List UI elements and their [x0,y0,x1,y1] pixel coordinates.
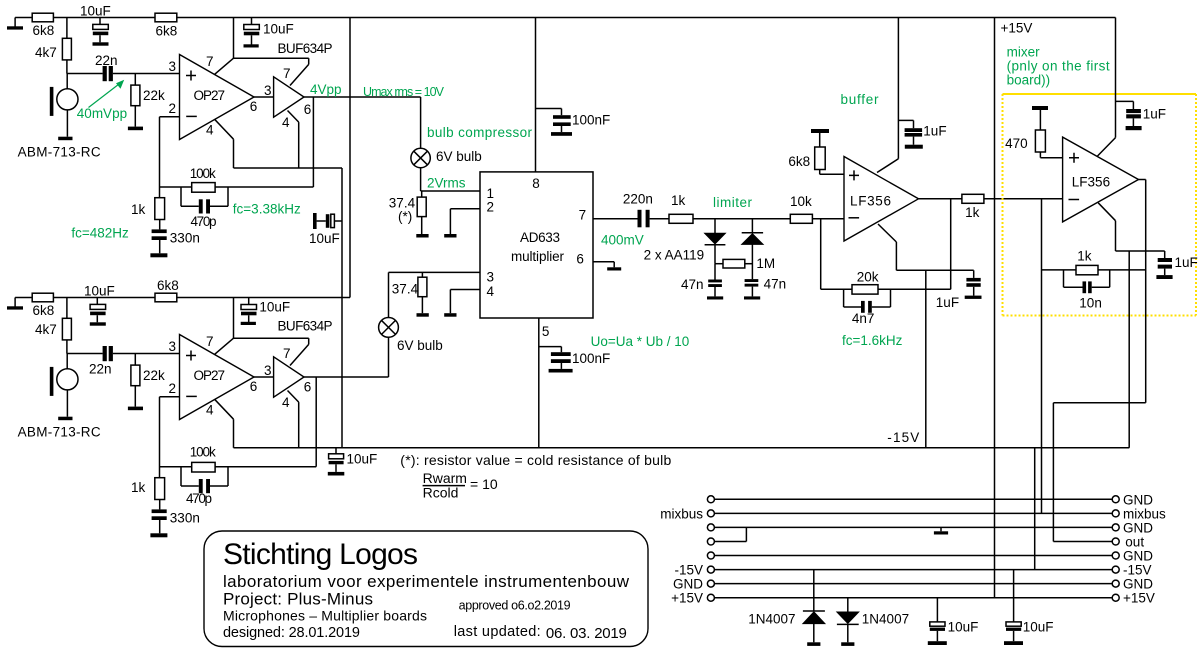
svg-text:1M: 1M [756,256,775,271]
svg-text:5: 5 [542,324,550,339]
svg-text:1N4007: 1N4007 [748,612,795,627]
svg-text:(*): (*) [398,209,412,224]
svg-text:4: 4 [206,403,214,418]
capacitor 10uF ch2 supply decoupler [241,298,290,326]
svg-text:47n: 47n [764,277,787,292]
svg-text:GND: GND [1123,521,1153,536]
resistor 6k8 ch1 right [155,13,177,38]
svg-text:4k7: 4k7 [35,45,57,60]
connector row 4 out [707,527,1144,549]
resistor 1M [715,256,775,271]
svg-text:4n7: 4n7 [852,311,875,326]
svg-text:+15V: +15V [1123,591,1155,606]
resistor 10k [790,194,812,223]
capacitor 100nF top [536,109,611,136]
wire mic node ch2 [67,340,103,354]
wire mixer summing node to mixbus [1041,199,1043,514]
capacitor 4n7 [844,289,891,326]
capacitor 10uF bottom -15V [1004,570,1053,645]
svg-text:6k8: 6k8 [33,23,55,38]
resistor 6k8 ch2 left [32,293,54,318]
wire LF356 output [919,198,962,200]
svg-text:22n: 22n [89,362,112,377]
diode 1N4007 right [837,598,909,646]
svg-text:LF356: LF356 [1072,174,1110,189]
svg-text:10k: 10k [790,194,812,209]
svg-text:1uF: 1uF [1143,107,1166,122]
wire mixer output [1053,180,1145,542]
svg-text:GND: GND [1123,577,1153,592]
wire -15V rail to row riser [1034,448,1036,570]
svg-text:6: 6 [250,379,258,394]
svg-text:10uF: 10uF [309,231,340,246]
svg-text:1k: 1k [1077,249,1092,264]
capacitor 10uF on -15V rail [328,448,377,476]
capacitor 330n ch1 [150,220,199,258]
wire feedback drop ch1 [160,97,314,187]
svg-text:Stichting Logos: Stichting Logos [223,538,418,571]
wire 10k to LF356 [812,218,844,220]
op-amp OP27 ch1 [180,55,255,140]
svg-text:Rcold: Rcold [423,485,459,501]
resistor 20k [852,270,879,295]
svg-text:6: 6 [304,380,312,395]
svg-text:3: 3 [487,270,495,285]
capacitor 10n [1064,270,1110,311]
capacitor 10uF bottom +15V [928,598,979,645]
svg-text:1N4007: 1N4007 [862,612,909,627]
capacitor 10uF ch1 supply decoupler [244,18,294,48]
buffer BUF634P ch2 [274,319,333,398]
svg-text:7: 7 [206,54,214,69]
svg-text:1k: 1k [965,205,980,220]
svg-text:1k: 1k [131,202,146,217]
capacitor 330n ch2 [150,500,199,538]
svg-text:100nF: 100nF [572,113,610,128]
svg-text:10uF: 10uF [948,620,979,635]
ground top-left [7,18,23,30]
wire AD633 pin5 to -15V [538,318,540,448]
wire OP27 pin7 supply ch2 [215,298,309,366]
connector row 3 GND [707,521,1153,536]
svg-text:1uF: 1uF [936,295,959,310]
svg-text:LF356: LF356 [850,194,891,209]
op-amp OP27 ch2 [180,335,255,420]
wire OP27 out to BUF [254,96,274,98]
wire LF356 pin4 V- [878,224,974,448]
svg-text:3: 3 [264,363,272,378]
resistor 22k ch2 [128,354,165,411]
resistor 22k ch1 [128,74,165,131]
svg-text:100nF: 100nF [572,351,610,366]
connector row 6 -15V [674,563,1151,578]
svg-text:20k: 20k [857,270,879,285]
svg-text:2: 2 [169,381,177,396]
resistor 6k8 ch2 right [155,278,179,302]
svg-text:2: 2 [487,200,495,215]
svg-text:6: 6 [304,102,312,117]
capacitor 22n ch2 [89,346,113,377]
svg-text:GND: GND [1123,549,1153,564]
wire inter-rail vertical [349,18,351,298]
resistor 6k8 ch1 left [32,13,54,38]
op-amp LF356 buffer [844,157,919,242]
capacitor 1uF mixer V- decoupler [1156,251,1197,279]
svg-text:4: 4 [282,115,290,130]
svg-text:3: 3 [169,59,177,74]
svg-text:4k7: 4k7 [35,322,57,337]
diode AA119 left [705,219,726,264]
svg-text:1uF: 1uF [923,124,946,139]
svg-text:37.4: 37.4 [392,282,419,297]
ground AD633 pin2 [444,209,480,238]
wire ch2 supply rail [15,297,350,299]
diode 1N4007 left [748,570,825,646]
buffer BUF634P ch1 [274,41,333,117]
svg-text:6V bulb: 6V bulb [436,149,482,164]
resistor 100k ch1 [190,166,216,192]
svg-text:1k: 1k [671,193,686,208]
svg-text:6k8: 6k8 [157,278,179,293]
svg-text:= 10: = 10 [470,476,498,492]
ground ch2 rail left [7,298,23,310]
svg-text:47n: 47n [681,277,704,292]
svg-text:10n: 10n [1079,296,1102,311]
wire -15V rail [234,447,1130,449]
resistor 37.4 ch2 [392,272,429,316]
connector row 8 +15V [671,591,1155,606]
wire mixer feedback line [1042,269,1146,271]
capacitor 10uF ch1 horizontal [309,213,342,246]
svg-text:470: 470 [1005,136,1028,151]
svg-text:Uo=Ua * Ub / 10: Uo=Ua * Ub / 10 [591,334,690,349]
wire BUF output 4Vpp [304,96,421,98]
wire +15V bus down [994,18,996,598]
svg-text:+15V: +15V [671,591,703,606]
svg-text:(pnly on the first: (pnly on the first [1007,59,1110,74]
svg-text:40mVpp: 40mVpp [77,106,127,121]
svg-text:2 x AA119: 2 x AA119 [644,248,705,263]
op-amp LF356 mixer [1063,137,1139,222]
svg-text:470p: 470p [191,214,217,229]
svg-text:8: 8 [532,176,540,191]
svg-text:board)): board)) [1007,73,1051,88]
resistor 4k7 ch1 [35,38,71,60]
svg-text:fc=482Hz: fc=482Hz [71,226,129,241]
bulb 6V ch2 [379,272,443,377]
svg-text:4: 4 [487,284,495,299]
svg-text:designed: 28.01.2019: designed: 28.01.2019 [223,625,360,641]
svg-text:7: 7 [283,66,291,81]
svg-text:7: 7 [579,208,587,223]
svg-text:laboratorium voor experimentel: laboratorium voor experimentele instrume… [223,572,630,591]
resistor 1k buffer output [962,194,984,220]
wire LF356 pin7 to +15V [877,18,898,173]
svg-text:out: out [1125,535,1144,550]
svg-text:330n: 330n [170,511,200,526]
microphone ABM-713-RC ch1 [18,74,101,160]
wire OP27 out to BUF ch2 [254,376,274,378]
svg-text:last updated:: last updated: [454,624,541,640]
bulb 6V ch1 [411,97,482,191]
svg-text:2Vrms: 2Vrms [427,176,466,191]
wire 4k7 junction [66,18,68,39]
resistor 37.4 ch1 [389,191,429,238]
svg-text:330n: 330n [170,231,200,246]
wire feedback 20k line [821,199,951,289]
svg-text:4: 4 [282,395,290,410]
capacitor 1uF buffer supply [898,120,946,148]
capacitor 100nF bottom [539,347,610,373]
svg-text:10uF: 10uF [259,300,290,315]
ground symbol on row 3 [934,527,948,534]
svg-text:3: 3 [169,339,177,354]
svg-text:3: 3 [264,83,272,98]
wire OP27/BUF pin4 ch2 to V- rail [215,391,299,448]
svg-text:6k8: 6k8 [33,303,55,318]
wire 220n to 1k [650,218,669,220]
svg-text:GND: GND [673,577,703,592]
svg-text:BUF634P: BUF634P [278,319,333,334]
svg-text:BUF634P: BUF634P [278,41,333,56]
capacitor 1uF mixer supply [1116,101,1166,130]
capacitor 470p ch1 [181,187,228,229]
wire feedback drop ch2 [160,377,317,467]
resistor 4k7 ch2 [35,318,71,340]
svg-text:ABM-713-RC: ABM-713-RC [18,145,101,160]
svg-text:4Vpp: 4Vpp [310,82,342,97]
svg-text:+15V: +15V [1001,21,1033,36]
svg-text:multiplier: multiplier [511,249,565,264]
svg-text:approved o6.o2.2019: approved o6.o2.2019 [459,599,571,613]
note Rwarm/Rcold fraction [423,470,498,501]
svg-text:mixbus: mixbus [660,507,703,522]
connector row 2 mixbus [660,507,1166,522]
svg-text:-15V: -15V [674,563,703,578]
svg-text:1uF: 1uF [1175,255,1198,270]
capacitor 1uF buffer V- decoupler [936,270,982,310]
svg-text:mixer: mixer [1007,45,1041,60]
wire 4k7 junction ch2 [66,298,68,319]
svg-text:22n: 22n [95,53,118,68]
mixer boundary box [1003,94,1197,316]
wire BUF output ch2 [304,376,389,378]
svg-text:2: 2 [169,101,177,116]
wire bulb to AD633 pin1 [421,190,480,192]
svg-text:6k8: 6k8 [156,24,178,39]
resistor 1k ch2 [131,478,165,500]
svg-text:fc=1.6kHz: fc=1.6kHz [842,333,903,348]
svg-text:10uF: 10uF [263,22,294,37]
svg-text:-15V: -15V [1123,563,1152,578]
capacitor 10uF ch1 left [80,4,111,46]
wire OP27 pin2 stub ch2 [160,397,180,478]
svg-text:mixbus: mixbus [1123,507,1166,522]
svg-text:-15V: -15V [887,430,919,445]
capacitor 47n right [744,277,786,300]
svg-text:22k: 22k [143,368,165,383]
microphone ABM-713-RC ch2 [18,354,101,440]
connector row 7 GND [673,577,1153,592]
svg-text:bulb compressor: bulb compressor [427,125,533,140]
svg-text:4: 4 [206,123,214,138]
svg-text:100k: 100k [190,166,216,181]
capacitor 470p ch2 [181,467,228,506]
svg-text:buffer: buffer [841,92,880,107]
svg-text:limiter: limiter [713,195,753,210]
svg-text:10uF: 10uF [84,284,115,299]
svg-text:6: 6 [250,99,258,114]
svg-text:6V bulb: 6V bulb [397,338,443,353]
IC AD633 multiplier [480,172,593,318]
wire 22n to opamp ch2 [113,353,180,355]
annotation 40mVpp with arrow [77,80,127,121]
wire AD633 pin7 output [593,218,638,220]
svg-text:6k8: 6k8 [788,154,810,169]
resistor 470 mixer bias [1005,106,1063,158]
wire bulb to AD633 pin3 [389,271,481,273]
capacitor 22n ch1 [95,53,118,81]
svg-text:OP27: OP27 [194,368,226,383]
svg-text:ABM-713-RC: ABM-713-RC [18,425,101,440]
wire OP27 pin2 stub [160,117,180,198]
svg-text:100k: 100k [190,445,216,460]
wire OP27 pin4 / BUF pin4 to V- [215,111,343,448]
wire 1k to 10k [693,218,790,220]
svg-text:22k: 22k [143,88,165,103]
svg-text:400mV: 400mV [601,233,644,248]
connector row 1 GND [707,493,1153,508]
svg-text:6: 6 [576,252,584,267]
diode AA119 right [742,219,763,279]
title box Stichting Logos [204,531,648,647]
wire AD633 pin8 to +15V [535,18,537,172]
resistor 1k mixer feedback [1076,249,1098,275]
svg-text:GND: GND [1123,493,1153,508]
svg-text:06. 03. 2019: 06. 03. 2019 [546,625,627,642]
wire 22n to opamp [113,73,180,75]
svg-text:AD633: AD633 [520,230,560,245]
resistor 100k ch2 [190,445,216,473]
wire mixer pin4 V- [1098,203,1165,448]
wire OP27 pin7 supply [215,18,309,86]
ground AD633 pin4 [444,290,480,317]
wire 1k to mixer [984,198,1063,200]
resistor 1k ch1 [131,198,165,220]
resistor 1k limiter [669,193,693,223]
ground AD633 pin6 [593,262,621,271]
connector row 5 GND [707,549,1153,564]
wire +15V top rail [15,17,1115,19]
wire mixer pin7 to +15V [1097,18,1115,157]
capacitor 10uF ch2 left [84,284,115,326]
svg-text:7: 7 [283,346,291,361]
svg-text:(*): resistor value = cold res: (*): resistor value = cold resistance of… [400,452,671,468]
capacitor 220n [623,192,653,228]
svg-text:470p: 470p [186,491,212,506]
svg-text:10uF: 10uF [347,452,378,467]
capacitor 47n left [681,264,723,300]
svg-text:1k: 1k [131,480,146,495]
wire mic node [67,60,103,74]
svg-text:7: 7 [206,334,214,349]
svg-text:220n: 220n [623,192,653,207]
svg-text:Microphones – Multiplier board: Microphones – Multiplier boards [223,608,427,624]
resistor 6k8 buffer bias [788,129,844,174]
svg-text:OP27: OP27 [194,88,226,103]
svg-text:Umax rms = 10V: Umax rms = 10V [363,85,445,99]
svg-text:Project: Plus-Minus: Project: Plus-Minus [223,590,373,609]
svg-text:fc=3.38kHz: fc=3.38kHz [233,202,301,217]
svg-text:10uF: 10uF [1023,620,1054,635]
svg-text:10uF: 10uF [80,4,111,19]
